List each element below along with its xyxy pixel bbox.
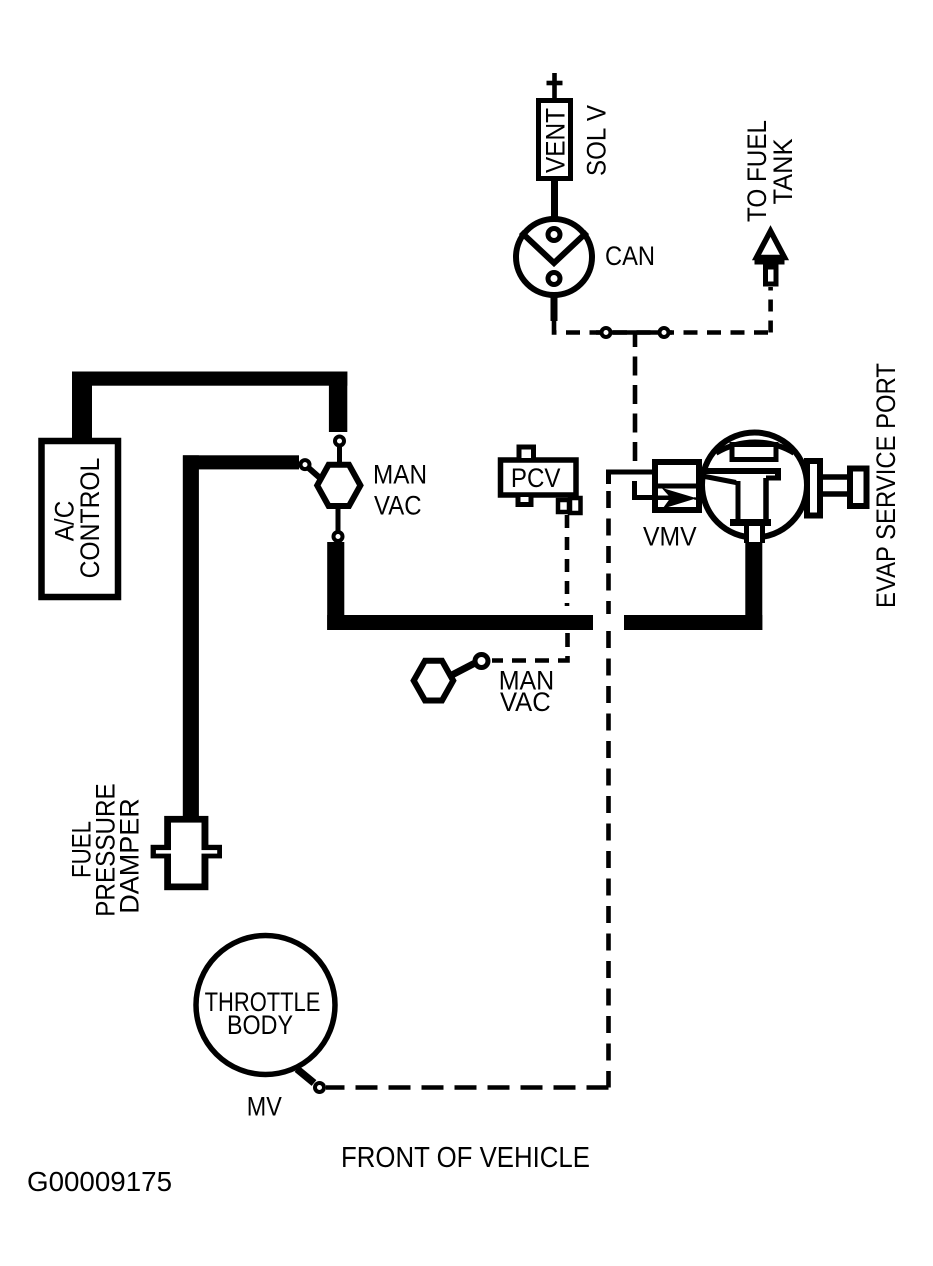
- plunger T right underside: [766, 476, 781, 481]
- svg-text:PCV: PCV: [511, 463, 561, 493]
- hose to fuel pressure damper vertical: [183, 455, 199, 817]
- svg-text:DAMPER: DAMPER: [115, 798, 145, 914]
- cap rectangle: [732, 445, 776, 460]
- plunger T right edge: [775, 471, 781, 478]
- VMV body: [655, 462, 699, 510]
- dashed hose junction down to VMV: [633, 357, 638, 469]
- PCV bottom tab: [518, 497, 531, 505]
- svg-text:MV: MV: [247, 1092, 282, 1122]
- plunger T stem right: [763, 478, 769, 521]
- elbow into VMV inlet: [635, 481, 654, 498]
- canister CAN circle: [516, 219, 592, 295]
- plunger T stem left: [736, 481, 741, 521]
- connector ring man vac lower: [475, 655, 488, 668]
- EVAP tube walls: [823, 474, 847, 480]
- wire canister to dashed junction: [551, 296, 558, 321]
- plus terminal on vent solenoid: [547, 73, 563, 98]
- svg-text:CONTROL: CONTROL: [75, 458, 105, 579]
- connector ring man vac top: [335, 437, 344, 446]
- plunger T foot: [730, 519, 771, 526]
- PCV body: [501, 460, 577, 495]
- canister top port: [548, 229, 560, 241]
- svg-text:TANK: TANK: [768, 139, 798, 205]
- plunger T left underside: [705, 477, 736, 483]
- link ring to hexagon top: [337, 446, 342, 465]
- wire vent solenoid to canister: [551, 179, 558, 219]
- junction tee solid: [633, 333, 638, 348]
- connector ring left: [602, 328, 611, 337]
- dashed hose canister to fuel tank line: [554, 321, 771, 333]
- throttle body circle: [196, 936, 335, 1075]
- bottom port right wall: [760, 522, 765, 543]
- svg-text:G00009175: G00009175: [27, 1166, 172, 1197]
- fuel tank arrow head: [757, 231, 785, 258]
- svg-text:MAN: MAN: [373, 460, 427, 490]
- svg-text:BODY: BODY: [227, 1010, 293, 1040]
- man vac hexagon upper: [317, 465, 360, 506]
- dashed hose PCV to man vac lower: [492, 633, 568, 661]
- connector ring man vac left: [301, 460, 310, 469]
- svg-text:SOL V: SOL V: [582, 105, 612, 176]
- hose A/C control horizontal: [72, 372, 347, 386]
- fuel pressure damper wing band: [151, 845, 222, 859]
- svg-text:FRONT OF VEHICLE: FRONT OF VEHICLE: [341, 1142, 590, 1174]
- main vacuum hose left run: [327, 615, 593, 630]
- link ring to hexagon left: [308, 467, 321, 478]
- bottom port left wall: [744, 522, 749, 543]
- hose up to EVAP port assembly: [745, 540, 762, 630]
- dashed hose PCV down: [565, 515, 570, 606]
- VMV divider: [652, 484, 702, 489]
- main vacuum hose right run: [624, 615, 762, 630]
- hose to fuel pressure damper horizontal: [183, 455, 299, 469]
- VMV inlet line: [651, 496, 672, 501]
- svg-text:CAN: CAN: [605, 241, 655, 271]
- canister bottom port: [548, 273, 560, 285]
- link hexagon bottom to ring: [336, 508, 341, 532]
- solid segment between connectors: [596, 330, 672, 335]
- hose A/C control vertical: [72, 378, 92, 438]
- canister V detail: [521, 232, 587, 263]
- dashed hose down to MV lower: [606, 631, 611, 1088]
- connector ring right: [660, 328, 669, 337]
- svg-text:VMV: VMV: [643, 522, 697, 552]
- dashed hose VMV to throttle body elbow: [609, 472, 654, 484]
- svg-text:VAC: VAC: [500, 687, 551, 717]
- fuel pressure damper body: [164, 816, 208, 890]
- connector ring man vac bottom: [334, 532, 343, 541]
- dashed hose MV horizontal: [326, 1085, 609, 1090]
- plunger T top bar: [703, 468, 781, 474]
- dashed riser to fuel tank arrow: [768, 287, 773, 333]
- VMV arrow: [662, 488, 697, 509]
- fuel pressure damper interior: [171, 823, 202, 884]
- EVAP flange: [807, 461, 820, 516]
- A/C control box: [42, 441, 119, 597]
- fuel pressure damper wing slit: [156, 850, 217, 854]
- PCV outlet fitting right: [570, 498, 581, 513]
- svg-text:VENT: VENT: [541, 108, 571, 173]
- link hexagon to ring lower: [450, 663, 475, 676]
- throttle body MV stub: [297, 1069, 314, 1083]
- EVAP service port circle: [702, 433, 807, 538]
- bottom port white gap: [744, 526, 765, 542]
- hose down to man vac hexagon: [329, 372, 347, 433]
- vent solenoid body: [539, 101, 571, 179]
- EVAP end cap: [850, 469, 867, 507]
- PCV outlet fitting left: [558, 500, 569, 512]
- fuel tank arrow port: [766, 267, 777, 284]
- fuel tank arrow base bar: [755, 258, 785, 265]
- dashed hose down to MV upper: [606, 491, 611, 614]
- svg-text:VAC: VAC: [374, 491, 422, 521]
- cap dome arc: [716, 442, 794, 453]
- svg-text:EVAP SERVICE PORT: EVAP SERVICE PORT: [871, 363, 901, 608]
- connector ring MV: [315, 1083, 324, 1092]
- PCV top tab: [519, 447, 534, 458]
- hose hexagon down: [327, 542, 344, 630]
- man vac hexagon lower: [414, 661, 454, 701]
